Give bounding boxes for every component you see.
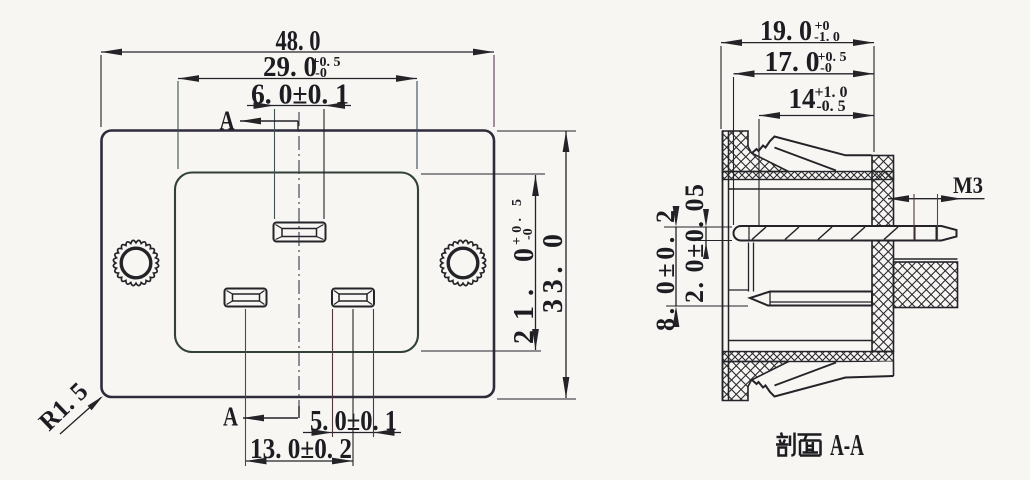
svg-text:-0: -0 bbox=[521, 228, 536, 240]
svg-text:-1. 0: -1. 0 bbox=[814, 30, 840, 45]
svg-text:17. 0: 17. 0 bbox=[765, 47, 820, 78]
dimension M3 bbox=[888, 198, 985, 200]
svg-text:33. 0: 33. 0 bbox=[538, 234, 569, 313]
hatched rear wall column bbox=[872, 156, 894, 352]
section arrow A (top) bbox=[240, 120, 298, 122]
hatched bottom thin wall strip bbox=[723, 352, 894, 362]
svg-text:8. 0±0. 2: 8. 0±0. 2 bbox=[651, 210, 680, 331]
dimension 48.0 bbox=[101, 51, 494, 53]
M3 nut on pin bbox=[914, 226, 916, 241]
svg-text:2. 0±0. 05: 2. 0±0. 05 bbox=[680, 184, 709, 303]
outer body outline (front view) bbox=[102, 131, 495, 398]
svg-text:A: A bbox=[223, 402, 238, 432]
lower contact pin (section) bbox=[750, 292, 872, 306]
svg-text:-0: -0 bbox=[820, 61, 832, 76]
screw hole left (serrated washer) bbox=[113, 240, 158, 285]
dimension 19.0 +0/-1.0 bbox=[721, 42, 874, 44]
bottom-left slot bbox=[225, 289, 267, 307]
dimension 13.0±0.2 bbox=[246, 460, 354, 462]
svg-text:29. 0: 29. 0 bbox=[263, 52, 317, 83]
bottom-right slot bbox=[332, 289, 374, 307]
top earth slot bbox=[274, 223, 326, 242]
dimension 33.0 (vertical) bbox=[565, 131, 567, 398]
section arrow A (bottom) bbox=[243, 417, 298, 419]
svg-text:-0. 5: -0. 5 bbox=[816, 98, 845, 115]
inner recess outline bbox=[175, 173, 418, 353]
screw hole right (serrated washer) bbox=[440, 240, 485, 285]
svg-text:14: 14 bbox=[789, 84, 816, 115]
svg-text:M3: M3 bbox=[953, 173, 983, 198]
dimension 17.0 +0.5/-0 bbox=[734, 73, 875, 75]
svg-text:6. 0±0. 1: 6. 0±0. 1 bbox=[251, 80, 349, 111]
dimension 14 +1.0/-0.5 bbox=[759, 115, 874, 117]
caption 剖面 (section) drawn as strokes bbox=[776, 433, 822, 456]
inner cavity top line bbox=[729, 188, 873, 190]
top latch spring arm bbox=[752, 137, 872, 171]
dimension 2.0±0.05 (vertical) bbox=[705, 227, 707, 254]
contact slot walls bbox=[748, 243, 750, 292]
dimension 21.0 +0.5/-0 (vertical) bbox=[535, 175, 537, 350]
svg-text:A: A bbox=[220, 106, 235, 136]
hatched mounting step block bbox=[894, 258, 958, 260]
svg-text:13. 0±0. 2: 13. 0±0. 2 bbox=[250, 434, 352, 465]
hatched top thin wall strip bbox=[723, 172, 894, 180]
vertical centerline (section cut line) bbox=[298, 112, 300, 418]
svg-text:R1. 5: R1. 5 bbox=[33, 377, 93, 437]
upper contact pin (section) bbox=[734, 226, 957, 241]
svg-text:19. 0: 19. 0 bbox=[760, 16, 812, 47]
dimension 29.0 +0.5/-0 bbox=[178, 78, 417, 80]
leader R1.5 (corner radius) bbox=[60, 398, 101, 435]
dimension 6.0±0.1 bbox=[247, 105, 351, 107]
dimension 5.0±0.1 bbox=[303, 432, 401, 434]
svg-text:A-A: A-A bbox=[830, 427, 864, 462]
bottom latch spring arm bbox=[752, 362, 894, 397]
hatched bottom flange block bbox=[723, 362, 789, 401]
hatched top flange block bbox=[723, 131, 789, 172]
dimension 8.0±0.2 (vertical) bbox=[675, 227, 677, 306]
inner cavity bottom line bbox=[729, 340, 873, 342]
pin section diagonals bbox=[752, 227, 766, 240]
section view: flange face double line bbox=[722, 131, 724, 401]
